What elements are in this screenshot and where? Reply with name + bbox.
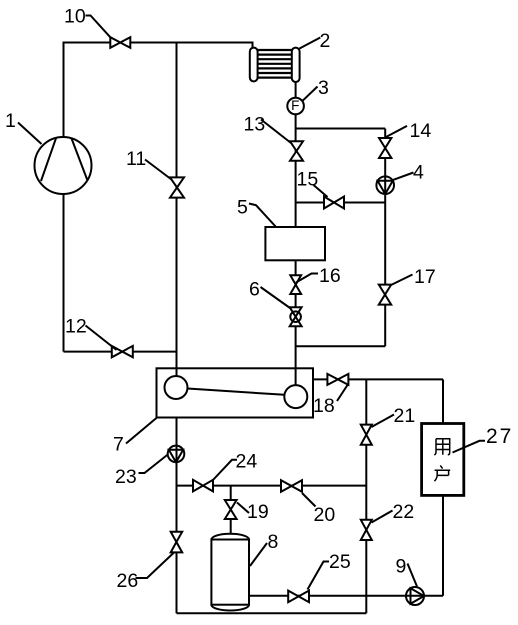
pump P9 triangle — [411, 588, 425, 604]
leader 21 — [372, 415, 395, 428]
pump P9 circle — [406, 587, 424, 605]
leader 23 — [139, 455, 168, 474]
leader 18 — [337, 385, 348, 401]
valve V16 — [290, 275, 301, 294]
wire horizontal y128 — [296, 128, 386, 130]
pump P23 circle — [168, 446, 185, 463]
valve V21 — [361, 425, 372, 445]
svg-text:10: 10 — [64, 6, 86, 28]
wire top horizontal — [64, 43, 253, 138]
svg-text:4: 4 — [413, 162, 424, 184]
wire valve-12 horizontal — [64, 351, 177, 353]
tank 8 bottom cap — [211, 605, 249, 611]
svg-text:F: F — [291, 98, 299, 113]
svg-text:3: 3 — [318, 77, 329, 99]
valve V19 — [225, 500, 237, 519]
wire horizontal y346 — [296, 345, 386, 347]
leader 11 — [145, 160, 172, 180]
wire user-box right vertical lower — [442, 496, 444, 596]
valve V6 circle — [290, 311, 301, 322]
svg-text:14: 14 — [410, 120, 432, 142]
svg-text:18: 18 — [313, 395, 335, 417]
heat exchanger E2 fins — [258, 50, 292, 78]
pump P23 triangle — [169, 450, 183, 462]
svg-text:6: 6 — [249, 279, 260, 301]
svg-text:9: 9 — [396, 556, 407, 578]
unit box 7 — [157, 368, 314, 417]
wire valves-21-22 vertical — [365, 379, 367, 613]
user box 27 character yong — [434, 439, 450, 455]
leader 25 — [308, 562, 330, 590]
tank 8 top cap — [211, 534, 249, 540]
valve V11 — [170, 177, 184, 197]
wire HX-to-rect5 vertical — [295, 81, 297, 227]
unit 7 right circle — [284, 385, 307, 408]
wire valve-18 horizontal — [313, 378, 443, 380]
valve V20 — [281, 480, 302, 492]
valve V25 — [288, 591, 309, 603]
pump P4 triangle — [378, 181, 393, 194]
valve V18 — [327, 374, 348, 385]
unit 7 left stub — [176, 368, 178, 377]
leader 22 — [372, 511, 393, 523]
wire bottom horizontal — [177, 612, 367, 614]
leader 26 — [136, 553, 175, 579]
wire valve-24 horizontal — [177, 485, 367, 487]
valve V12 — [112, 346, 133, 357]
svg-text:11: 11 — [126, 148, 146, 170]
leader 19 — [237, 503, 249, 514]
leader 5 — [249, 204, 277, 228]
wire rect5-to-rect7 vertical — [295, 260, 297, 385]
user box 27 character hu — [434, 465, 450, 481]
valve V13 — [290, 141, 303, 160]
leader 15 — [314, 185, 328, 197]
svg-text:21: 21 — [394, 405, 416, 427]
leader 17 — [391, 275, 413, 286]
wire valve-15 horizontal — [296, 202, 386, 204]
compressor U1 circle — [35, 137, 92, 194]
leader 3 — [303, 87, 318, 101]
wire valve-19 branch — [230, 486, 232, 535]
leader 1 — [18, 123, 42, 145]
heat exchanger E2 left header — [250, 48, 258, 82]
leader 13 — [261, 120, 291, 144]
svg-text:23: 23 — [115, 466, 137, 488]
svg-text:8: 8 — [268, 531, 279, 553]
leader 12 — [86, 326, 117, 351]
svg-text:2: 2 — [320, 30, 331, 52]
svg-text:7: 7 — [113, 434, 124, 456]
leader 6 — [261, 287, 291, 308]
leader 4 — [392, 173, 414, 181]
svg-text:1: 1 — [5, 110, 16, 132]
svg-text:13: 13 — [244, 114, 266, 136]
valve V6 bowtie — [290, 307, 302, 326]
pump P4 circle — [376, 176, 394, 194]
leader 8 — [250, 543, 267, 566]
svg-text:19: 19 — [247, 501, 269, 523]
valve V15 — [324, 197, 344, 209]
wire tank outlet horizontal — [249, 595, 443, 597]
svg-text:12: 12 — [65, 316, 87, 338]
svg-text:15: 15 — [297, 169, 319, 191]
leader 24 — [213, 460, 238, 481]
leader 20 — [302, 493, 316, 507]
flow meter F3 circle — [287, 98, 304, 115]
leader 27 — [453, 441, 486, 453]
compressor U1 vane left — [41, 138, 56, 181]
leader 16 — [296, 274, 318, 283]
svg-text:27: 27 — [486, 425, 513, 448]
svg-text:5: 5 — [237, 197, 248, 219]
valve V22 — [361, 520, 372, 540]
svg-text:22: 22 — [393, 501, 415, 523]
user box 27 — [422, 424, 464, 496]
tank 8 body — [211, 540, 249, 605]
valve V10 — [110, 37, 130, 48]
wire user-box right vertical upper — [442, 379, 444, 423]
svg-text:24: 24 — [236, 451, 258, 473]
leader 9 — [408, 564, 418, 587]
unit 7 right stub — [295, 368, 297, 385]
valve V14 — [379, 138, 391, 158]
svg-text:25: 25 — [329, 551, 351, 573]
unit 7 left circle — [165, 376, 188, 399]
svg-text:26: 26 — [117, 570, 139, 592]
leader 14 — [386, 126, 407, 137]
wire below rect7 vertical — [176, 418, 178, 614]
wire right branch vertical — [384, 129, 386, 347]
unit 7 belt — [188, 389, 285, 395]
svg-text:17: 17 — [414, 266, 436, 288]
valve V26 — [171, 532, 183, 553]
svg-text:20: 20 — [314, 504, 336, 526]
heat exchanger E2 right header — [292, 48, 300, 82]
valve V24 — [193, 480, 213, 492]
leader 2 — [300, 38, 321, 49]
wire left vertical lower — [63, 194, 65, 352]
leader 10 — [86, 16, 112, 39]
valve V17 — [379, 285, 391, 305]
svg-text:16: 16 — [319, 265, 341, 287]
wire main middle vertical — [176, 43, 178, 377]
evaporator box 5 — [265, 227, 325, 260]
leader 7 — [126, 418, 157, 444]
compressor U1 vane right — [72, 138, 88, 180]
